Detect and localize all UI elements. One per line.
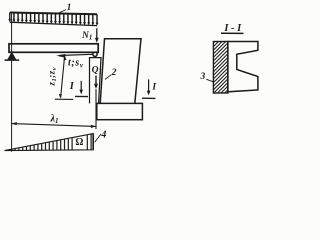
svg-text:2: 2	[111, 68, 117, 78]
svg-text:I: I	[151, 82, 156, 92]
svg-text:1: 1	[67, 3, 72, 13]
svg-text:Ω: Ω	[75, 137, 83, 148]
svg-text:I - I: I - I	[223, 23, 242, 34]
svg-text:3: 3	[200, 72, 206, 82]
svg-text:4: 4	[100, 129, 106, 140]
svg-text:I: I	[69, 81, 75, 92]
